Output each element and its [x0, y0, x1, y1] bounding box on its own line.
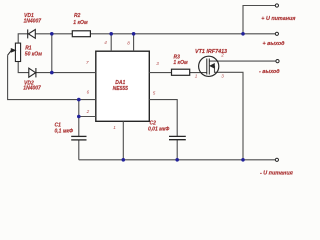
node junction pin 2 [77, 115, 81, 119]
capacitor C2 [169, 136, 186, 139]
wire C1 bottom to ground rail [78, 140, 80, 160]
svg-text:6: 6 [87, 89, 90, 94]
wire VD1 to R2 (top rail left segment) [35, 33, 72, 35]
svg-text:4: 4 [104, 40, 107, 45]
resistor R2 [72, 31, 90, 37]
wire R2 to + vyhod terminal (top rail right segment) [90, 33, 275, 35]
svg-text:2: 2 [86, 109, 90, 114]
svg-text:- U питания: - U питания [260, 171, 294, 177]
svg-text:50 кОм: 50 кОм [25, 52, 42, 58]
resistor R1 (potentiometer 50k) [15, 43, 20, 61]
node junction pin 1 rail [122, 158, 126, 162]
transistor Q1 VT1 IRF7413 mosfet [199, 56, 219, 76]
wire top-left corner to VD1 and down to R1 top [18, 34, 28, 43]
svg-text:NE555: NE555 [113, 86, 129, 92]
terminal + U pitaniya [275, 4, 278, 7]
wire drain to - vyhod [209, 60, 276, 62]
svg-text:7: 7 [86, 60, 89, 65]
wire pin 4 drop [110, 34, 112, 51]
node junction pin 8 [132, 32, 136, 36]
svg-text:1: 1 [113, 125, 116, 130]
svg-text:3: 3 [221, 73, 224, 78]
wire pin 2 stub [79, 116, 96, 118]
svg-text:R2: R2 [74, 13, 81, 19]
node junction pin7 row [50, 71, 54, 75]
wire node column pin7 [51, 34, 53, 73]
node junction C2 rail [175, 158, 179, 162]
wire bottom rail - U pitaniya [79, 159, 275, 161]
wire pin 8 drop [133, 34, 135, 51]
wire wiper rail to pin 6 [8, 55, 96, 99]
svg-text:5: 5 [153, 90, 156, 95]
wire pin 5 to C2 [149, 100, 177, 136]
svg-text:1 кОм: 1 кОм [173, 60, 188, 66]
svg-text:2: 2 [220, 53, 224, 58]
svg-text:- выход: - выход [259, 69, 280, 75]
wire R1 bottom to VD2 [18, 62, 29, 73]
svg-text:8: 8 [127, 40, 130, 45]
node junction + output [241, 32, 245, 36]
wire pin 3 to R3 [149, 72, 171, 74]
svg-text:0,01 мкФ: 0,01 мкФ [148, 126, 169, 132]
svg-text:C1: C1 [55, 122, 62, 128]
svg-text:+ U питания: + U питания [261, 16, 296, 22]
svg-text:1N4007: 1N4007 [24, 19, 42, 25]
wire source to bottom rail [215, 66, 244, 160]
svg-text:1: 1 [195, 73, 198, 78]
diode VD1 [28, 29, 36, 38]
terminal - vyhod [276, 60, 279, 63]
op-amp/timer U1 body DA1 NE555 [96, 51, 150, 121]
wire pin6 node down to C1 [78, 100, 80, 136]
terminal - U pitaniya [275, 158, 278, 161]
node junction pin 4 [109, 32, 113, 36]
wire C2 bottom to rail [176, 140, 178, 160]
node junction source rail [241, 158, 245, 162]
node junction pin 6 [77, 98, 81, 102]
wire VD2 to pin 7 [36, 72, 96, 74]
svg-text:+ выход: + выход [263, 41, 286, 47]
svg-text:1N4007: 1N4007 [23, 86, 41, 92]
potentiometer wiper arrow [8, 49, 16, 55]
resistor R3 [172, 69, 190, 75]
capacitor C1 [71, 136, 86, 140]
terminal + vyhod [275, 32, 278, 35]
wire + U pitaniya branch [243, 6, 275, 34]
svg-text:3: 3 [156, 61, 159, 66]
svg-text:0,1 мкФ: 0,1 мкФ [55, 128, 74, 134]
wire pin 1 to bottom rail [122, 121, 124, 160]
node junction pin7-VCC column top [50, 32, 54, 36]
svg-text:1 кОм: 1 кОм [73, 20, 88, 26]
wire R3 to gate [190, 72, 207, 74]
diode VD2 [29, 68, 36, 77]
